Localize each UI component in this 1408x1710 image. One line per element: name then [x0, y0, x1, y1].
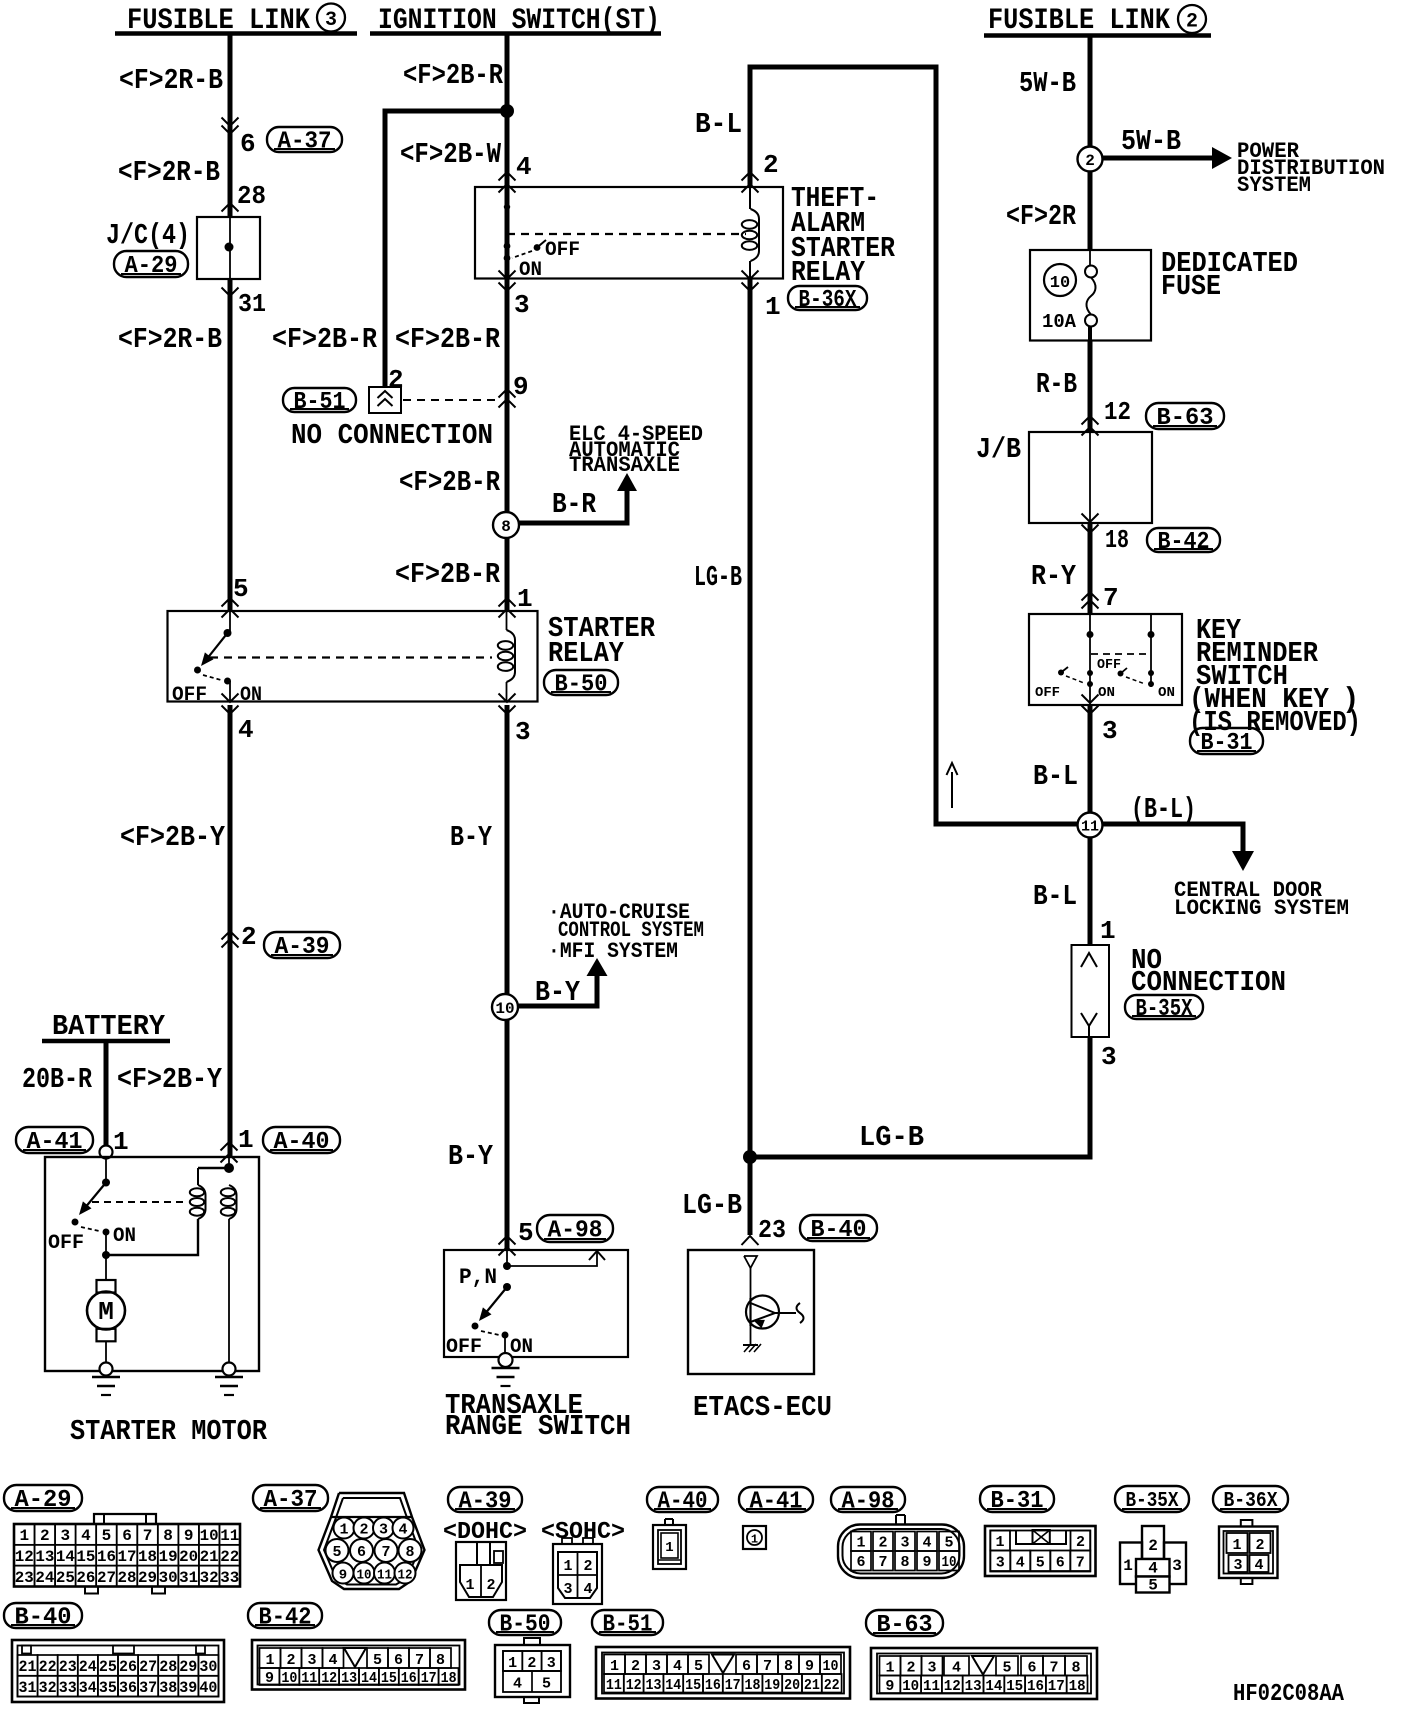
- svg-text:3: 3: [927, 1660, 936, 1677]
- svg-text:12: 12: [398, 1568, 413, 1584]
- chevron starter relay pin 3: [499, 706, 516, 715]
- svg-text:2: 2: [878, 1535, 887, 1552]
- ETACS transistor: [746, 1296, 804, 1329]
- svg-text:12: 12: [15, 1548, 34, 1566]
- connector ref (A-37) bottom: [253, 1485, 328, 1511]
- svg-text:22: 22: [824, 1677, 840, 1694]
- svg-text:7: 7: [763, 1658, 772, 1675]
- svg-text:13: 13: [965, 1678, 982, 1695]
- connector A-39 SOHC pinout: [553, 1538, 602, 1604]
- svg-text:36: 36: [119, 1679, 137, 1697]
- svg-text:12: 12: [944, 1678, 961, 1695]
- svg-text:17: 17: [421, 1670, 437, 1687]
- chevron theft relay pin 3: [499, 283, 516, 292]
- chevron theft relay pin 1: [742, 283, 759, 292]
- svg-text:5: 5: [1036, 1555, 1045, 1572]
- key reminder right pivot: [1118, 668, 1128, 677]
- svg-text:5: 5: [332, 1544, 341, 1561]
- svg-text:A-41: A-41: [27, 1129, 83, 1156]
- svg-text:7: 7: [143, 1527, 153, 1545]
- svg-text:14: 14: [985, 1678, 1002, 1695]
- motor M circle: [87, 1292, 125, 1330]
- svg-text:37: 37: [139, 1679, 157, 1697]
- svg-text:24: 24: [35, 1569, 54, 1587]
- svg-text:<F>2B-R: <F>2B-R: [272, 323, 378, 356]
- svg-text:8: 8: [784, 1658, 793, 1675]
- key reminder right dashed arm: [1126, 677, 1145, 684]
- label CENTRAL DOOR LOCKING SYSTEM: [1174, 878, 1349, 921]
- svg-text:A-98: A-98: [548, 1218, 603, 1245]
- svg-text:4: 4: [398, 1522, 407, 1539]
- svg-text:B-L: B-L: [1033, 760, 1078, 793]
- svg-text:4: 4: [513, 1676, 522, 1693]
- svg-text:5: 5: [944, 1535, 953, 1552]
- svg-text:1: 1: [238, 1125, 254, 1155]
- svg-text:A-39: A-39: [459, 1489, 512, 1516]
- svg-text:28: 28: [159, 1658, 177, 1676]
- svg-text:8: 8: [405, 1544, 414, 1561]
- svg-text:A-29: A-29: [125, 253, 178, 280]
- svg-text:1: 1: [665, 1540, 673, 1556]
- svg-text:1: 1: [885, 1660, 894, 1677]
- node 11 circle: [1078, 813, 1103, 838]
- svg-text:10: 10: [495, 1000, 514, 1018]
- svg-text:2: 2: [583, 1558, 592, 1575]
- label ELC 4-SPEED AUTOMATIC TRANSAXLE: [569, 422, 703, 478]
- svg-text:RELAY: RELAY: [548, 637, 625, 670]
- svg-text:3: 3: [652, 1658, 661, 1675]
- key reminder left dashed arm: [1066, 676, 1084, 683]
- svg-text:9: 9: [922, 1554, 931, 1571]
- svg-text:8: 8: [436, 1652, 445, 1669]
- wire branch to B-51 no-connection: [385, 111, 507, 387]
- label DEDICATED FUSE: [1161, 247, 1298, 303]
- connector ref (B-50) bottom: [489, 1610, 561, 1635]
- svg-text:<F>2R: <F>2R: [1006, 200, 1076, 233]
- connector ref (A-29): [114, 251, 188, 277]
- svg-text:34: 34: [79, 1679, 97, 1697]
- connector ref (A-98) bottom: [831, 1487, 905, 1512]
- svg-text:14: 14: [361, 1670, 377, 1687]
- wire (F)2R-B to starter relay: [228, 279, 233, 610]
- svg-text:31: 31: [238, 289, 266, 319]
- svg-text:3: 3: [1172, 1557, 1182, 1575]
- chevron into theft relay pin 4: [499, 172, 516, 181]
- svg-text:4: 4: [238, 715, 254, 745]
- svg-text:9: 9: [184, 1527, 194, 1545]
- connector ref (B-31): [1190, 728, 1263, 754]
- chevron out of key reminder pin 3: [1082, 706, 1099, 715]
- wire B-L key reminder to node 11: [1088, 705, 1093, 945]
- svg-text:OFF: OFF: [172, 684, 207, 707]
- svg-text:12: 12: [1104, 397, 1131, 427]
- starter motor coil top link: [198, 1167, 229, 1169]
- svg-text:RELAY: RELAY: [791, 256, 866, 289]
- svg-text:2: 2: [486, 1577, 495, 1594]
- svg-text:2: 2: [286, 1652, 295, 1669]
- arrow to auto-cruise MFI: [587, 958, 608, 976]
- arrow to ELC 4-speed automatic transaxle: [617, 473, 637, 491]
- battery underline: [42, 1039, 170, 1043]
- connector ref (A-98): [537, 1215, 613, 1242]
- connector B-40 pinout: [12, 1640, 224, 1702]
- svg-text:1: 1: [765, 292, 781, 322]
- svg-text:19: 19: [764, 1677, 780, 1694]
- svg-text:1: 1: [265, 1652, 274, 1669]
- starter motor junction dot: [102, 1251, 110, 1259]
- connector ref (B-51) bottom: [592, 1610, 663, 1635]
- transaxle pivot dot: [503, 1283, 511, 1291]
- svg-text:5: 5: [373, 1652, 382, 1669]
- svg-text:J/B: J/B: [976, 433, 1021, 466]
- svg-text:P,N: P,N: [459, 1265, 497, 1290]
- starter relay box: [168, 611, 538, 702]
- svg-text:5W-B: 5W-B: [1019, 67, 1076, 100]
- svg-text:8: 8: [900, 1554, 909, 1571]
- svg-text:3: 3: [325, 9, 337, 32]
- starter relay wire ON to pin 4: [229, 681, 231, 701]
- svg-text:21: 21: [804, 1677, 820, 1694]
- svg-text:5: 5: [518, 1218, 534, 1248]
- svg-text:9: 9: [339, 1568, 347, 1584]
- branch wire to central door locking: [1103, 824, 1243, 852]
- wire LG-B theft relay pin 1 down to ETACS: [748, 279, 753, 1236]
- svg-text:14: 14: [665, 1677, 681, 1694]
- svg-text:B-L: B-L: [1033, 880, 1077, 913]
- svg-text:ON: ON: [1098, 685, 1115, 701]
- svg-text:10: 10: [281, 1670, 297, 1687]
- svg-text:2: 2: [1085, 152, 1095, 170]
- svg-text:2: 2: [527, 1655, 536, 1672]
- arrow to power distribution system: [1212, 147, 1232, 169]
- svg-text:A-29: A-29: [15, 1487, 72, 1514]
- svg-text:14: 14: [56, 1548, 75, 1566]
- svg-text:ON: ON: [1158, 685, 1175, 701]
- svg-text:<F>2B-R: <F>2B-R: [399, 466, 500, 499]
- svg-text:3: 3: [563, 1581, 572, 1598]
- svg-text:B-Y: B-Y: [535, 976, 581, 1009]
- svg-text:1: 1: [1232, 1537, 1241, 1554]
- connector ref (A-39) bottom: [448, 1487, 522, 1512]
- fuse number circle 10: [1044, 264, 1076, 296]
- svg-text:9: 9: [885, 1678, 894, 1695]
- svg-text:A-40: A-40: [658, 1489, 708, 1516]
- svg-text:BATTERY: BATTERY: [52, 1010, 166, 1043]
- svg-text:1: 1: [610, 1658, 619, 1675]
- svg-text:2: 2: [906, 1660, 915, 1677]
- motor wire from switch: [105, 1255, 107, 1280]
- svg-text:10: 10: [902, 1678, 919, 1695]
- svg-text:9: 9: [805, 1658, 814, 1675]
- ETACS input triangle: [744, 1256, 757, 1268]
- chevron out of J/C: [222, 288, 239, 297]
- svg-text:16: 16: [401, 1670, 417, 1687]
- transaxle ON dot: [502, 1332, 509, 1339]
- svg-text:1: 1: [563, 1558, 572, 1575]
- svg-text:11: 11: [606, 1677, 622, 1694]
- starter relay coil wire: [506, 611, 508, 630]
- svg-text:4: 4: [922, 1535, 931, 1552]
- svg-text:3: 3: [900, 1535, 909, 1552]
- svg-text:11: 11: [301, 1670, 317, 1687]
- starter motor switch wire from battery: [105, 1158, 107, 1182]
- starter relay mechanical dashed link: [210, 656, 492, 658]
- theft relay coil wire: [749, 187, 751, 209]
- connector transition A-37 pin 6: [222, 118, 239, 135]
- connector A-37 pinout: [319, 1493, 425, 1589]
- chevron starter relay pin 4: [222, 706, 239, 715]
- svg-text:B-35X: B-35X: [1136, 996, 1193, 1023]
- svg-text:1: 1: [517, 584, 533, 614]
- connector B-35X pinout: [1120, 1526, 1186, 1595]
- svg-text:35: 35: [99, 1679, 117, 1697]
- connector ref (A-39): [264, 932, 340, 958]
- svg-text:11: 11: [220, 1527, 239, 1545]
- svg-text:33: 33: [220, 1569, 239, 1587]
- svg-text:31: 31: [179, 1569, 198, 1587]
- starter motor pivot dot: [102, 1179, 110, 1187]
- svg-text:30: 30: [199, 1658, 217, 1676]
- key reminder main wire: [1089, 614, 1091, 705]
- svg-text:ON: ON: [240, 684, 262, 707]
- connector A-40 pinout: [653, 1519, 686, 1569]
- starter relay pivot dot: [224, 629, 232, 637]
- no connection connector B-35X box: [1072, 945, 1110, 1037]
- svg-text:LG-B: LG-B: [694, 561, 742, 594]
- connector A-39 DOHC pinout: [456, 1542, 506, 1600]
- connector ref (B-50): [544, 670, 618, 695]
- svg-text:OFF: OFF: [446, 1336, 482, 1359]
- battery wire 20B-R: [104, 1042, 109, 1146]
- starter motor hold coil: [190, 1168, 206, 1219]
- direction arrow up: [947, 763, 958, 808]
- svg-text:3: 3: [996, 1555, 1005, 1572]
- ETACS wire to transistor: [750, 1268, 752, 1298]
- connector B-51 pinout: [596, 1647, 850, 1699]
- svg-text:5: 5: [542, 1676, 551, 1693]
- svg-text:26: 26: [119, 1658, 137, 1676]
- svg-text:HF02C08AA: HF02C08AA: [1233, 1681, 1345, 1708]
- ETACS emitter to ground: [750, 1326, 752, 1344]
- wire inside J/C: [229, 217, 231, 279]
- key reminder right contacts: [1148, 670, 1154, 687]
- svg-text:5: 5: [102, 1527, 112, 1545]
- svg-text:3: 3: [61, 1527, 71, 1545]
- svg-text:17: 17: [1048, 1678, 1065, 1695]
- svg-text:18: 18: [1069, 1678, 1086, 1695]
- connector ref (A-41) bottom: [739, 1487, 813, 1512]
- chevron into starter relay pin 1: [499, 598, 516, 607]
- transaxle dashed arm: [481, 1331, 499, 1335]
- label NO CONNECTION B-35X: [1131, 944, 1286, 999]
- ETACS-ECU box: [688, 1250, 814, 1374]
- svg-text:10A: 10A: [1042, 311, 1077, 333]
- starter relay dashed arm: [203, 675, 221, 680]
- svg-text:2: 2: [763, 150, 779, 180]
- svg-text:30: 30: [159, 1569, 178, 1587]
- svg-text:A-39: A-39: [275, 934, 330, 961]
- svg-text:RANGE SWITCH: RANGE SWITCH: [445, 1410, 631, 1443]
- svg-text:LOCKING SYSTEM: LOCKING SYSTEM: [1174, 896, 1349, 921]
- svg-text:31: 31: [19, 1679, 37, 1697]
- svg-text:STARTER MOTOR: STARTER MOTOR: [70, 1415, 268, 1448]
- svg-text:32: 32: [200, 1569, 219, 1587]
- svg-text:4: 4: [1254, 1557, 1263, 1574]
- svg-text:27: 27: [97, 1569, 116, 1587]
- svg-text:·MFI SYSTEM: ·MFI SYSTEM: [548, 939, 678, 964]
- svg-text:6: 6: [856, 1554, 865, 1571]
- transaxle wire to ground: [504, 1335, 506, 1353]
- svg-text:16: 16: [705, 1677, 721, 1694]
- node 10 circle: [492, 994, 518, 1020]
- junction dot ignition branch: [500, 104, 514, 118]
- svg-text:B-42: B-42: [1158, 529, 1210, 556]
- label POWER DISTRIBUTION SYSTEM: [1237, 139, 1385, 198]
- connector ref (B-35X): [1125, 995, 1203, 1019]
- chevron into starter motor A-40: [221, 1142, 238, 1151]
- svg-text:20B-R: 20B-R: [22, 1063, 92, 1096]
- svg-text:13: 13: [646, 1677, 662, 1694]
- motor brush upper: [97, 1280, 116, 1293]
- svg-text:5: 5: [694, 1658, 703, 1675]
- connector B-50 pinout: [495, 1638, 570, 1703]
- node 2 circle: [1078, 147, 1103, 172]
- svg-text:4: 4: [81, 1527, 91, 1545]
- svg-text:B-R: B-R: [552, 488, 596, 521]
- transaxle P,N dot: [503, 1262, 511, 1270]
- svg-text:B-42: B-42: [259, 1605, 312, 1632]
- svg-text:1: 1: [856, 1535, 865, 1552]
- svg-text:TRANSAXLE: TRANSAXLE: [569, 453, 680, 478]
- label THEFT-ALARM STARTER RELAY: [791, 182, 896, 289]
- svg-text:19: 19: [159, 1548, 178, 1566]
- svg-text:23: 23: [59, 1658, 77, 1676]
- connector B-31 pinout: [985, 1526, 1096, 1576]
- wire R-Y: [1088, 523, 1093, 614]
- svg-text:OFF: OFF: [1035, 685, 1060, 701]
- svg-text:4: 4: [516, 152, 532, 182]
- svg-text:ON: ON: [519, 259, 542, 282]
- connector ref (B-31) bottom: [980, 1486, 1054, 1512]
- theft relay wire to pin 3: [506, 258, 508, 279]
- connector A-29 pinout: [14, 1514, 240, 1594]
- wire (F)2B-Y starter relay to starter motor: [228, 705, 233, 1157]
- svg-text:<F>2B-W: <F>2B-W: [400, 138, 501, 171]
- svg-text:<F>2B-Y: <F>2B-Y: [117, 1063, 223, 1096]
- transaxle arrow to box edge: [589, 1251, 605, 1260]
- svg-text:25: 25: [99, 1658, 117, 1676]
- svg-text:11: 11: [1081, 818, 1099, 835]
- svg-text:3: 3: [1101, 1042, 1117, 1072]
- fuse element: [1085, 250, 1097, 341]
- starter relay ON dot: [224, 678, 231, 685]
- svg-text:8: 8: [163, 1527, 173, 1545]
- svg-text:B-31: B-31: [991, 1488, 1044, 1515]
- svg-text:R-B: R-B: [1036, 368, 1077, 401]
- svg-text:B-50: B-50: [555, 672, 608, 699]
- svg-text:11: 11: [377, 1568, 392, 1584]
- svg-text:28: 28: [237, 181, 266, 211]
- svg-text:10: 10: [942, 1554, 957, 1571]
- theft-alarm starter relay box: [475, 187, 783, 279]
- svg-text:J/C(4): J/C(4): [106, 219, 190, 252]
- motor wire to ground: [105, 1341, 107, 1362]
- svg-text:4: 4: [1148, 1560, 1158, 1578]
- svg-text:B-31: B-31: [1201, 730, 1253, 757]
- theft relay contact dots: [504, 243, 511, 262]
- svg-text:4: 4: [328, 1652, 337, 1669]
- branch wire 5W-B to power distribution: [1102, 156, 1214, 161]
- chevron into starter relay pin 5: [222, 598, 239, 607]
- svg-text:18: 18: [138, 1548, 157, 1566]
- svg-text:25: 25: [56, 1569, 75, 1587]
- label STARTER RELAY: [548, 612, 656, 670]
- wire fusible-link-3 vertical (F)2R-B: [228, 34, 233, 217]
- key reminder main contacts: [1087, 670, 1093, 687]
- theft relay mechanical dashed link: [507, 233, 746, 235]
- svg-text:<F>2R-B: <F>2R-B: [119, 64, 223, 97]
- starter motor box: [45, 1157, 259, 1371]
- label AUTO-CRUISE CONTROL SYSTEM MFI SYSTEM: [548, 900, 704, 964]
- connector ref (A-37): [267, 127, 342, 152]
- svg-text:8: 8: [501, 518, 511, 536]
- svg-text:FUSE: FUSE: [1161, 270, 1221, 303]
- starter motor pull coil: [221, 1185, 237, 1362]
- svg-text:6: 6: [742, 1658, 751, 1675]
- svg-text:<F>2B-Y: <F>2B-Y: [120, 821, 226, 854]
- svg-text:<F>2B-R: <F>2B-R: [403, 59, 503, 92]
- svg-text:2: 2: [1186, 11, 1198, 34]
- connector ref (B-42): [1147, 528, 1220, 552]
- connector ref (B-35X) bottom: [1115, 1486, 1189, 1512]
- svg-text:A-37: A-37: [264, 1487, 318, 1514]
- chevron out of J/B pin 18: [1082, 514, 1099, 523]
- svg-text:22: 22: [220, 1548, 239, 1566]
- connector ref (A-40) bottom: [647, 1487, 718, 1512]
- svg-text:5: 5: [233, 574, 249, 604]
- svg-text:(B-L): (B-L): [1131, 793, 1196, 826]
- no-connection connector B-51 symbol: [369, 387, 401, 413]
- svg-text:ON: ON: [113, 1225, 136, 1248]
- node 8 circle: [493, 512, 519, 538]
- svg-text:B-36X: B-36X: [799, 287, 857, 314]
- wire ignition to starter relay: [505, 187, 510, 610]
- svg-text:2: 2: [359, 1522, 368, 1539]
- starter motor wire to hold coil: [106, 1219, 198, 1255]
- transaxle range switch box: [444, 1250, 628, 1357]
- starter motor wire ON down: [105, 1232, 107, 1255]
- connector ref (A-29) bottom: [4, 1485, 82, 1511]
- svg-text:7: 7: [1076, 1555, 1085, 1572]
- node 10 branch wire B-Y: [517, 974, 597, 1006]
- svg-text:7: 7: [381, 1544, 390, 1561]
- svg-text:13: 13: [341, 1670, 357, 1687]
- svg-text:39: 39: [179, 1679, 197, 1697]
- svg-text:A-41: A-41: [750, 1489, 803, 1516]
- svg-text:7: 7: [1103, 583, 1119, 613]
- svg-text:12: 12: [626, 1677, 642, 1694]
- svg-text:2: 2: [1148, 1537, 1158, 1555]
- svg-text:3: 3: [1233, 1557, 1242, 1574]
- svg-text:21: 21: [200, 1548, 219, 1566]
- starter motor ON dot: [103, 1229, 110, 1236]
- svg-text:FUSIBLE LINK: FUSIBLE LINK: [988, 4, 1170, 38]
- svg-text:15: 15: [1006, 1678, 1023, 1695]
- svg-text:29: 29: [138, 1569, 157, 1587]
- wire B-35X to LG-B junction: [1088, 1037, 1093, 1160]
- svg-text:6: 6: [357, 1544, 366, 1561]
- svg-text:A-40: A-40: [274, 1129, 330, 1156]
